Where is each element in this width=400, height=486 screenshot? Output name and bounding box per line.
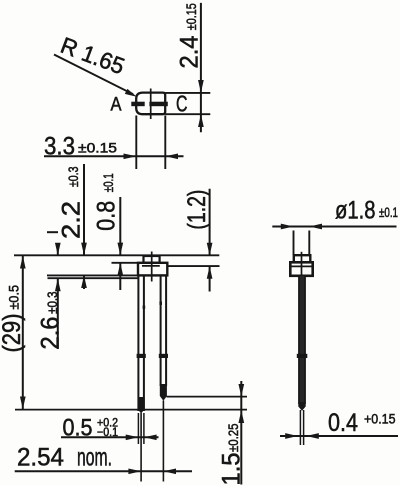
extension line body top [112,262,139,264]
dim 2.54 dimension line [15,468,192,474]
svg-text:ø1.8: ø1.8 [335,197,376,225]
left lead centre extension [140,413,142,482]
line from right lead end [167,396,248,398]
label 0.8 +-0.1 [93,173,121,231]
dim 3.3 extension lines [135,116,137,170]
extension line (1.2) [167,265,219,267]
label 0.5 +0.2 -0.1 [63,415,119,442]
label (29) +-0.5 [0,285,26,353]
svg-text:C: C [176,91,188,117]
label 2.2 +-0.3 [58,166,86,239]
svg-text:nom.: nom. [77,444,112,472]
left lead edge extensions [137,413,139,444]
dim 2.4 extension lines [165,92,210,94]
svg-text:2.6: 2.6 [36,317,64,350]
svg-text:(1.2): (1.2) [183,190,211,230]
svg-text:±0.1: ±0.1 [100,173,116,192]
svg-text:+0.15: +0.15 [364,411,396,427]
lead nick marks [143,306,146,309]
svg-text:±0.1: ±0.1 [379,204,398,220]
svg-text:−0.1: −0.1 [97,427,118,439]
bottom reference line [15,409,247,411]
dim (29) dimension line [20,256,26,410]
front view centerline [151,252,153,282]
svg-text:1.5: 1.5 [218,453,246,486]
front view nose [144,256,160,263]
svg-text:2.4: 2.4 [176,35,204,68]
top view divider line [150,89,152,120]
side lead crimp mark [297,354,308,358]
left lead [138,275,145,413]
dim 0.8 dimension line [117,197,123,290]
side view body [290,262,312,276]
svg-text:2.2: 2.2 [58,201,86,239]
dim 0.4 dimension line [280,433,398,439]
label 1.5 +-0.25 [218,423,246,485]
dim 3.3 dimension line [44,153,184,159]
front view inner line [142,265,160,267]
extension line body bottom [47,274,138,276]
svg-text:(29): (29) [0,314,26,353]
svg-text:±0.3: ±0.3 [44,291,60,314]
dim dia 1.8 extension lines [293,231,295,255]
svg-text:±0.3: ±0.3 [65,166,81,187]
top view thick center band [131,102,144,107]
dim 2.6 dimension line [55,243,61,349]
svg-text:±0.5: ±0.5 [5,285,21,310]
svg-text:0.8: 0.8 [93,201,121,231]
dim 0.5 dimension line [61,434,159,440]
right lead centre extension [162,401,164,482]
dim 2.2 dimension line [81,164,87,289]
svg-text:±0.15: ±0.15 [78,140,117,156]
svg-text:0.4: 0.4 [328,409,358,437]
label dia 1.8 +-0.1 [335,197,398,225]
side view lead [298,276,305,411]
leader line R1.65 [54,55,137,97]
side view centerline [301,252,303,280]
front view top reference line [14,254,219,256]
svg-text:2.54: 2.54 [17,444,64,472]
label 0.4 +0.15 [328,409,396,437]
extension line 2.6 [48,277,140,279]
svg-text:±0.25: ±0.25 [225,423,241,452]
label 2.4 +-0.15 [176,3,204,68]
dim 1.5 dimension line [238,381,244,485]
label 3.3 +-0.15 [44,133,117,161]
svg-text:±0.15: ±0.15 [183,3,199,30]
top view body outline [136,93,165,115]
svg-text:3.3: 3.3 [44,133,75,161]
svg-text:0.5: 0.5 [63,415,93,442]
dim dia 1.8 dimension line [272,224,396,230]
side lead tip extensions [299,410,301,445]
dim 2.4 dimension line [198,3,204,132]
dim (1.2) dimension line [207,189,213,292]
svg-text:A: A [111,95,122,116]
right lead [160,275,167,400]
label 2.6 +-0.3 [36,291,64,349]
stray dash [47,231,58,233]
front view body [138,263,167,276]
lead crimp marks [137,354,146,358]
side view inner line [292,265,312,267]
label 2.54 nom. [17,444,112,472]
side view nose [294,255,311,262]
